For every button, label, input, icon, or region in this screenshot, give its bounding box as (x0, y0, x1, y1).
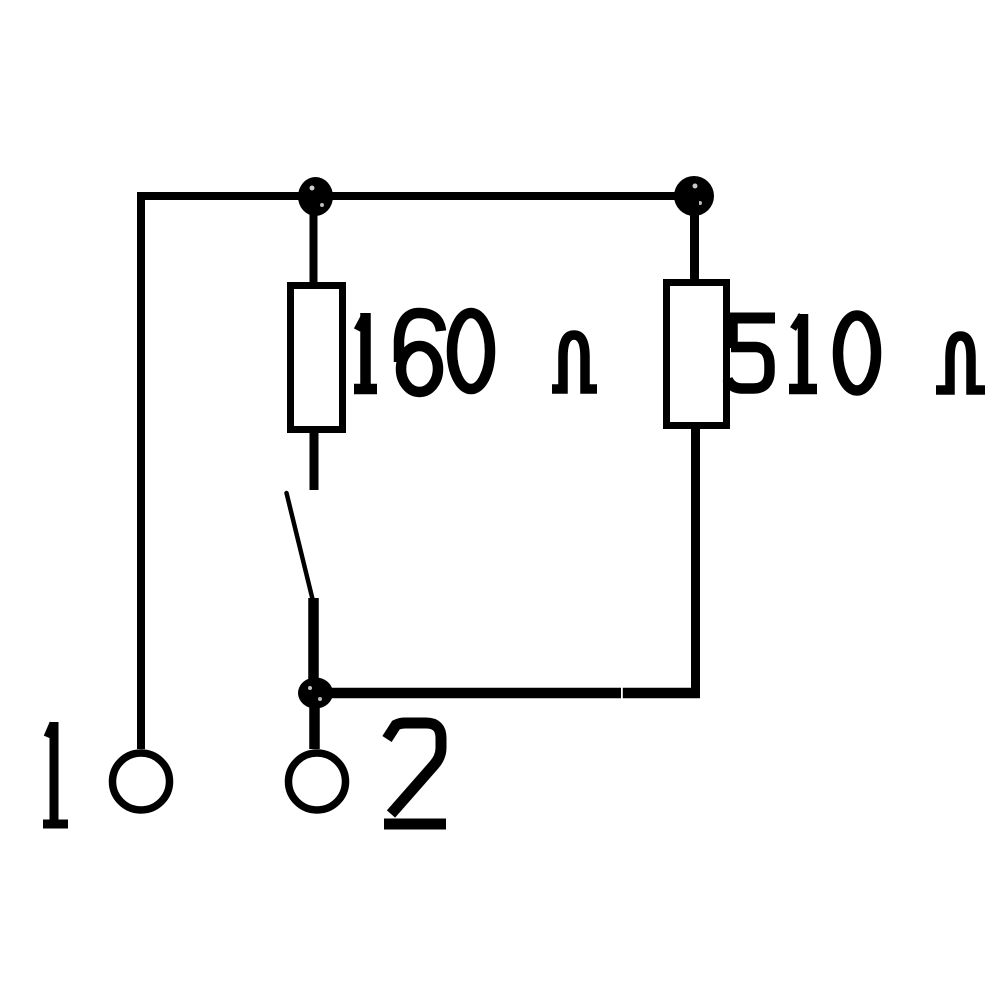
wire: bottom horizontal rail from node C to right branch (325, 688, 700, 699)
label: R1 unit ohm symbol (552, 335, 597, 389)
resistor R1 body (291, 286, 343, 430)
label: terminal 2 (384, 723, 446, 824)
wire: lead from node A down to resistor R1 (310, 196, 318, 283)
label: terminal 1 (43, 722, 68, 824)
wire: top horizontal rail (137, 192, 700, 200)
wire: lead from resistor R1 down to switch S1 (310, 433, 319, 490)
node C (bottom junction, terminal 2) (298, 678, 333, 709)
node A (top junction of switch/R1 branch) (298, 177, 333, 216)
wire: right vertical from bottom rail up to resistor R2 (691, 429, 700, 697)
resistor R2 body (667, 283, 727, 426)
label: R2 unit ohm symbol (936, 336, 985, 390)
wire: from switch S1 down to node C (308, 598, 319, 685)
wire: lead from resistor R2 up to node B (690, 196, 699, 282)
wire: left vertical from terminal 1 up to top rail (137, 192, 145, 749)
label: R1 value 160 (354, 313, 490, 392)
terminal 1 circle (113, 753, 170, 810)
switch S1 blade (open) (287, 493, 313, 599)
terminal 2 circle (289, 753, 346, 810)
node B (top junction of R2 branch) (674, 176, 714, 216)
label: R2 value 510 (727, 314, 876, 391)
wire: from node C down to terminal 2 circle (309, 705, 320, 749)
